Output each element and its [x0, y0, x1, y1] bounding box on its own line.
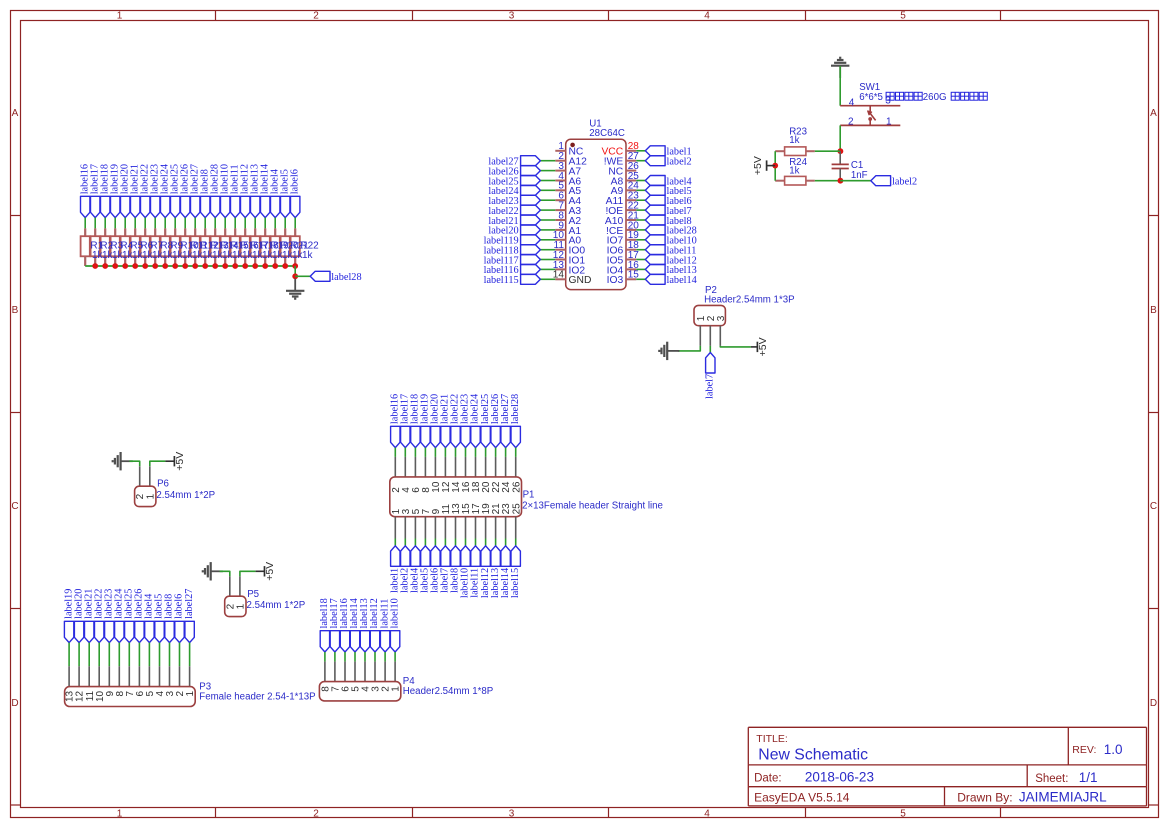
svg-text:EasyEDA V5.5.14: EasyEDA V5.5.14 [754, 791, 850, 805]
svg-text:1: 1 [117, 10, 123, 21]
svg-text:GND: GND [569, 275, 592, 286]
svg-text:REV:: REV: [1072, 744, 1096, 756]
svg-text:B: B [1150, 305, 1157, 316]
svg-text:TITLE:: TITLE: [756, 733, 788, 745]
svg-text:4: 4 [704, 808, 710, 819]
svg-text:Sheet:: Sheet: [1035, 773, 1068, 785]
svg-text:2: 2 [848, 117, 854, 128]
svg-text:1k: 1k [789, 166, 799, 177]
svg-text:Header2.54mm 1*8P: Header2.54mm 1*8P [403, 686, 493, 697]
svg-text:+5V: +5V [752, 156, 764, 175]
svg-text:A: A [12, 108, 19, 119]
svg-text:New Schematic: New Schematic [758, 746, 868, 763]
svg-text:3: 3 [509, 10, 515, 21]
svg-text:5: 5 [900, 808, 906, 819]
svg-text:B: B [12, 305, 19, 316]
svg-text:3: 3 [509, 808, 515, 819]
svg-text:P1: P1 [523, 490, 535, 501]
svg-text:label28: label28 [510, 394, 521, 424]
svg-text:25: 25 [511, 503, 522, 515]
svg-text:2.54mm 1*2P: 2.54mm 1*2P [247, 600, 306, 611]
svg-text:1: 1 [185, 690, 196, 696]
svg-text:2018-06-23: 2018-06-23 [805, 770, 874, 785]
svg-text:260G: 260G [923, 92, 947, 103]
svg-text:label15: label15 [510, 568, 521, 598]
svg-text:A: A [1150, 108, 1157, 119]
svg-text:1/1: 1/1 [1079, 770, 1098, 785]
svg-text:5: 5 [900, 10, 906, 21]
svg-text:Drawn By:: Drawn By: [957, 791, 1012, 805]
svg-text:Female header 2.54-1*13P: Female header 2.54-1*13P [199, 692, 315, 703]
svg-text:label28: label28 [331, 272, 361, 283]
svg-text:1k: 1k [789, 135, 799, 146]
svg-text:4: 4 [849, 97, 855, 108]
svg-text:28C64C: 28C64C [589, 128, 625, 139]
svg-text:label2: label2 [892, 176, 917, 187]
svg-text:label10: label10 [389, 598, 400, 628]
svg-text:1: 1 [886, 116, 892, 127]
svg-text:JAIMEMIAJRL: JAIMEMIAJRL [1019, 790, 1107, 805]
svg-text:26: 26 [511, 481, 522, 493]
svg-text:+5V: +5V [174, 452, 186, 471]
svg-text:1: 1 [117, 808, 123, 819]
svg-text:+5V: +5V [757, 337, 769, 356]
svg-text:3: 3 [885, 96, 891, 107]
svg-text:C: C [11, 501, 18, 512]
svg-text:label27: label27 [184, 589, 195, 619]
svg-text:2×13Female header Straight lin: 2×13Female header Straight line [522, 500, 663, 511]
svg-text:Date:: Date: [754, 772, 782, 784]
svg-text:1.0: 1.0 [1104, 742, 1123, 757]
svg-text:4: 4 [704, 10, 710, 21]
svg-text:label115: label115 [484, 275, 519, 286]
svg-text:IO3: IO3 [607, 275, 624, 286]
svg-text:3: 3 [716, 315, 727, 321]
svg-text:1: 1 [391, 686, 402, 692]
svg-text:1nF: 1nF [851, 170, 868, 181]
svg-text:D: D [11, 698, 18, 709]
svg-text:Header2.54mm 1*3P: Header2.54mm 1*3P [704, 294, 794, 305]
svg-text:label6: label6 [289, 169, 300, 194]
svg-text:label2: label2 [667, 157, 692, 168]
svg-text:P6: P6 [157, 479, 169, 490]
svg-text:D: D [1150, 698, 1157, 709]
svg-text:label14: label14 [667, 275, 697, 286]
svg-text:+5V: +5V [264, 562, 276, 581]
svg-text:label7: label7 [705, 374, 716, 399]
svg-text:2: 2 [313, 10, 319, 21]
svg-text:1k: 1k [302, 250, 314, 261]
svg-text:1: 1 [145, 493, 156, 499]
svg-text:6*6*5: 6*6*5 [859, 92, 883, 103]
svg-text:C: C [1150, 501, 1157, 512]
svg-text:P5: P5 [247, 589, 259, 600]
svg-text:2: 2 [313, 808, 319, 819]
svg-text:2.54mm 1*2P: 2.54mm 1*2P [156, 490, 215, 501]
svg-text:1: 1 [235, 603, 246, 609]
